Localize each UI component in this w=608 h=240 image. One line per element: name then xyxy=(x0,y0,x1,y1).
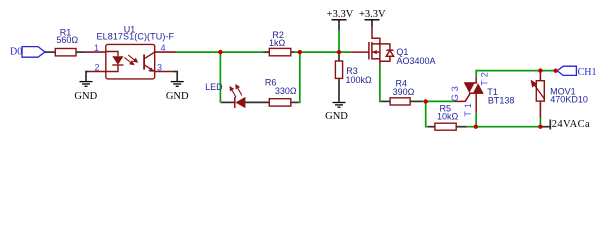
svg-text:4: 4 xyxy=(160,43,165,53)
svg-text:G3: G3 xyxy=(450,83,460,101)
svg-text:LED: LED xyxy=(205,82,223,92)
svg-text:390Ω: 390Ω xyxy=(393,87,415,97)
svg-text:10kΩ: 10kΩ xyxy=(437,111,459,121)
svg-text:D0: D0 xyxy=(10,47,22,58)
svg-text:GND: GND xyxy=(325,111,348,122)
svg-text:GND: GND xyxy=(74,91,97,102)
svg-text:+3.3V: +3.3V xyxy=(359,9,386,20)
svg-text:GND: GND xyxy=(166,91,189,102)
svg-text:470KD10: 470KD10 xyxy=(550,95,588,105)
svg-text:BT138: BT138 xyxy=(488,96,515,106)
svg-text:1: 1 xyxy=(94,43,99,53)
svg-text:CH1: CH1 xyxy=(578,67,597,78)
svg-text:560Ω: 560Ω xyxy=(56,35,78,45)
svg-text:+3.3V: +3.3V xyxy=(327,9,354,20)
svg-text:24VACa: 24VACa xyxy=(552,119,590,130)
svg-text:100kΩ: 100kΩ xyxy=(346,75,373,85)
svg-text:T2: T2 xyxy=(479,69,489,86)
svg-text:3: 3 xyxy=(157,62,162,72)
svg-text:2: 2 xyxy=(94,62,99,72)
svg-text:330Ω: 330Ω xyxy=(275,86,297,96)
svg-text:AO3400A: AO3400A xyxy=(397,56,436,66)
svg-text:T1: T1 xyxy=(463,100,473,117)
svg-text:EL817S1(C)(TU)-F: EL817S1(C)(TU)-F xyxy=(97,32,175,42)
svg-text:1kΩ: 1kΩ xyxy=(269,38,286,48)
